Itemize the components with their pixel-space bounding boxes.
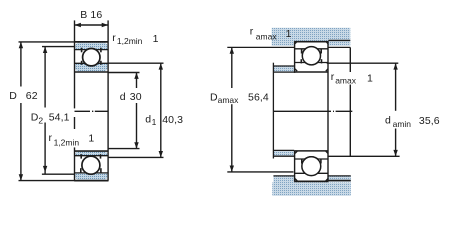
vertical line at housing block right edge [349,47,351,72]
svg-text:amax: amax [218,95,240,105]
shoulder tabs right top section [301,49,303,54]
dimension D2 54,1 [31,47,75,175]
label ramax middle [331,71,373,85]
svg-text:amin: amin [393,119,412,129]
bearing right side face line [107,42,109,181]
ball right top [302,47,320,65]
right bearing face lines bottom section [294,158,328,160]
inner ring top section (blue) [75,63,108,71]
label r1,2min top [112,32,158,46]
svg-text:1: 1 [153,33,159,45]
svg-text:r: r [250,26,254,38]
dimension D 62 [9,42,74,181]
housing block top (blue stippled) [272,28,351,46]
svg-text:amax: amax [335,75,357,85]
svg-text:1,2min: 1,2min [54,137,80,147]
svg-text:1: 1 [286,28,292,40]
svg-text:d: d [120,91,126,103]
svg-text:2: 2 [38,115,43,125]
groove arcs right top [301,47,322,68]
label ramax top [250,26,292,42]
dimension Damax 56,4 [210,47,294,171]
right bearing OD line top (thick) + extension right [294,41,328,43]
housing shoulder bottom-right (blue) [328,176,350,182]
dimension damin 35,6 [327,63,440,156]
housing block bottom (blue stippled) [272,182,351,195]
svg-text:54,1: 54,1 [49,112,70,124]
svg-text:1,2min: 1,2min [117,36,143,46]
raceway shoulder tabs top section [81,48,83,53]
svg-text:40,3: 40,3 [162,114,183,126]
svg-text:56,4: 56,4 [248,91,269,103]
shaft shoulder bottom-left (blue) [273,151,294,156]
svg-text:35,6: 35,6 [419,115,440,127]
outer ring inner-face lines top section [75,49,108,51]
svg-text:r: r [331,71,335,83]
svg-text:30: 30 [130,91,142,103]
shaft shoulder edges top [273,65,294,67]
svg-text:1: 1 [367,73,373,85]
groove clearance arcs top section [81,49,101,69]
groove arcs right bottom [300,157,322,179]
svg-text:B 16: B 16 [80,9,102,21]
dimension d1 40,3 [108,63,183,157]
housing shoulder edge top-left / Damax extension line [227,46,294,48]
chamfer marks right bearing corners [295,41,328,181]
right bearing white body [295,42,328,73]
bearing OD line top (thick) [74,41,108,43]
bearing OD line bottom (thick) [74,180,108,182]
right bearing OD line bottom (thick) + extension right [294,180,328,182]
groove clearance arcs bottom section [80,156,101,177]
svg-text:62: 62 [26,90,38,102]
housing shoulder edge top-right [328,46,350,48]
bore line bottom section (thick) [74,150,108,152]
bore line top section (thick) [74,71,108,73]
svg-text:d: d [385,114,391,126]
svg-text:1: 1 [88,133,94,145]
shaft shoulder top-left (blue) [273,66,294,71]
svg-text:r: r [112,32,116,44]
bearing left side face line (gap behind text) [74,42,76,109]
svg-text:1: 1 [152,117,157,127]
raceway shoulder tabs bottom section [80,154,82,158]
shoulder tabs right bottom section [301,159,303,164]
svg-text:r: r [49,132,53,144]
right bearing face lines top section [294,48,328,50]
outer ring top section (blue) [75,43,108,50]
svg-text:d: d [145,114,151,126]
ball bottom section [82,156,100,174]
outer ring bottom section (blue) [75,173,108,180]
ball right bottom [302,157,321,176]
label r1,2min bottom [49,132,95,147]
shaft end face line [272,63,274,159]
axis centerline right view [273,110,352,112]
right bearing bore line bottom (thick) [294,150,328,152]
shaft shoulder edges bottom [273,149,294,151]
svg-text:D: D [9,90,17,102]
dimension d 30 [108,73,142,149]
dimension B (width) [75,9,109,42]
housing shoulder top edges bottom [273,175,294,177]
right bearing bore line top (thick) [294,71,328,73]
svg-text:amax: amax [256,32,278,42]
ball top section [83,49,100,66]
face lines bottom section [75,155,108,157]
housing shoulder bottom-left (blue) [273,176,294,183]
axis centerline left view [75,110,109,112]
right bearing side face lines [294,41,296,73]
inner ring bottom section (blue) [75,152,108,156]
